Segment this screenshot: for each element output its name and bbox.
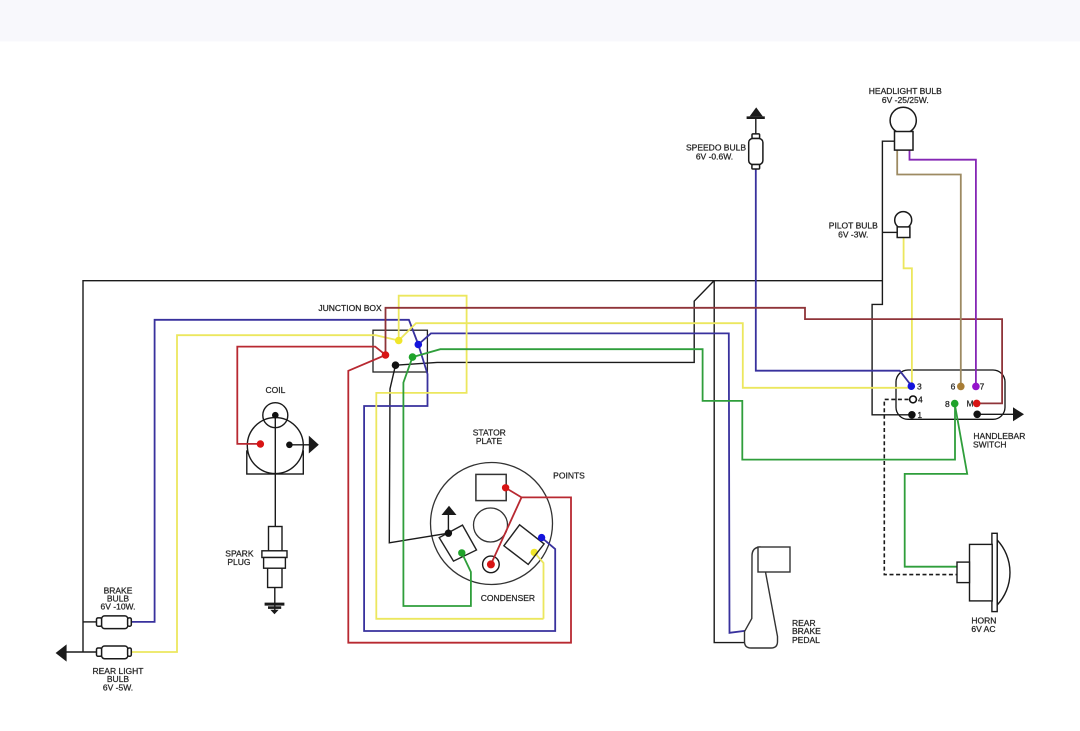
svg-text:6V -25/25W.: 6V -25/25W.: [882, 95, 929, 105]
svg-text:4: 4: [918, 395, 923, 405]
svg-text:PLUG: PLUG: [227, 557, 250, 567]
svg-text:6V -0.6W.: 6V -0.6W.: [696, 152, 733, 162]
svg-text:1: 1: [917, 410, 922, 420]
svg-text:CONDENSER: CONDENSER: [481, 593, 535, 603]
svg-text:7: 7: [980, 382, 985, 392]
svg-text:PEDAL: PEDAL: [792, 635, 820, 645]
svg-text:3: 3: [917, 382, 922, 392]
svg-text:PLATE: PLATE: [476, 436, 503, 446]
svg-text:M: M: [966, 399, 973, 409]
svg-text:COIL: COIL: [265, 385, 285, 395]
svg-text:JUNCTION BOX: JUNCTION BOX: [318, 303, 382, 313]
svg-text:SWITCH: SWITCH: [973, 439, 1007, 449]
svg-text:6V -5W.: 6V -5W.: [103, 683, 133, 693]
svg-text:8: 8: [945, 399, 950, 409]
svg-text:6V AC: 6V AC: [971, 624, 995, 634]
svg-text:6V -10W.: 6V -10W.: [101, 601, 136, 611]
svg-text:6: 6: [951, 382, 956, 392]
svg-text:6V -3W.: 6V -3W.: [838, 229, 868, 239]
svg-text:POINTS: POINTS: [553, 471, 585, 481]
